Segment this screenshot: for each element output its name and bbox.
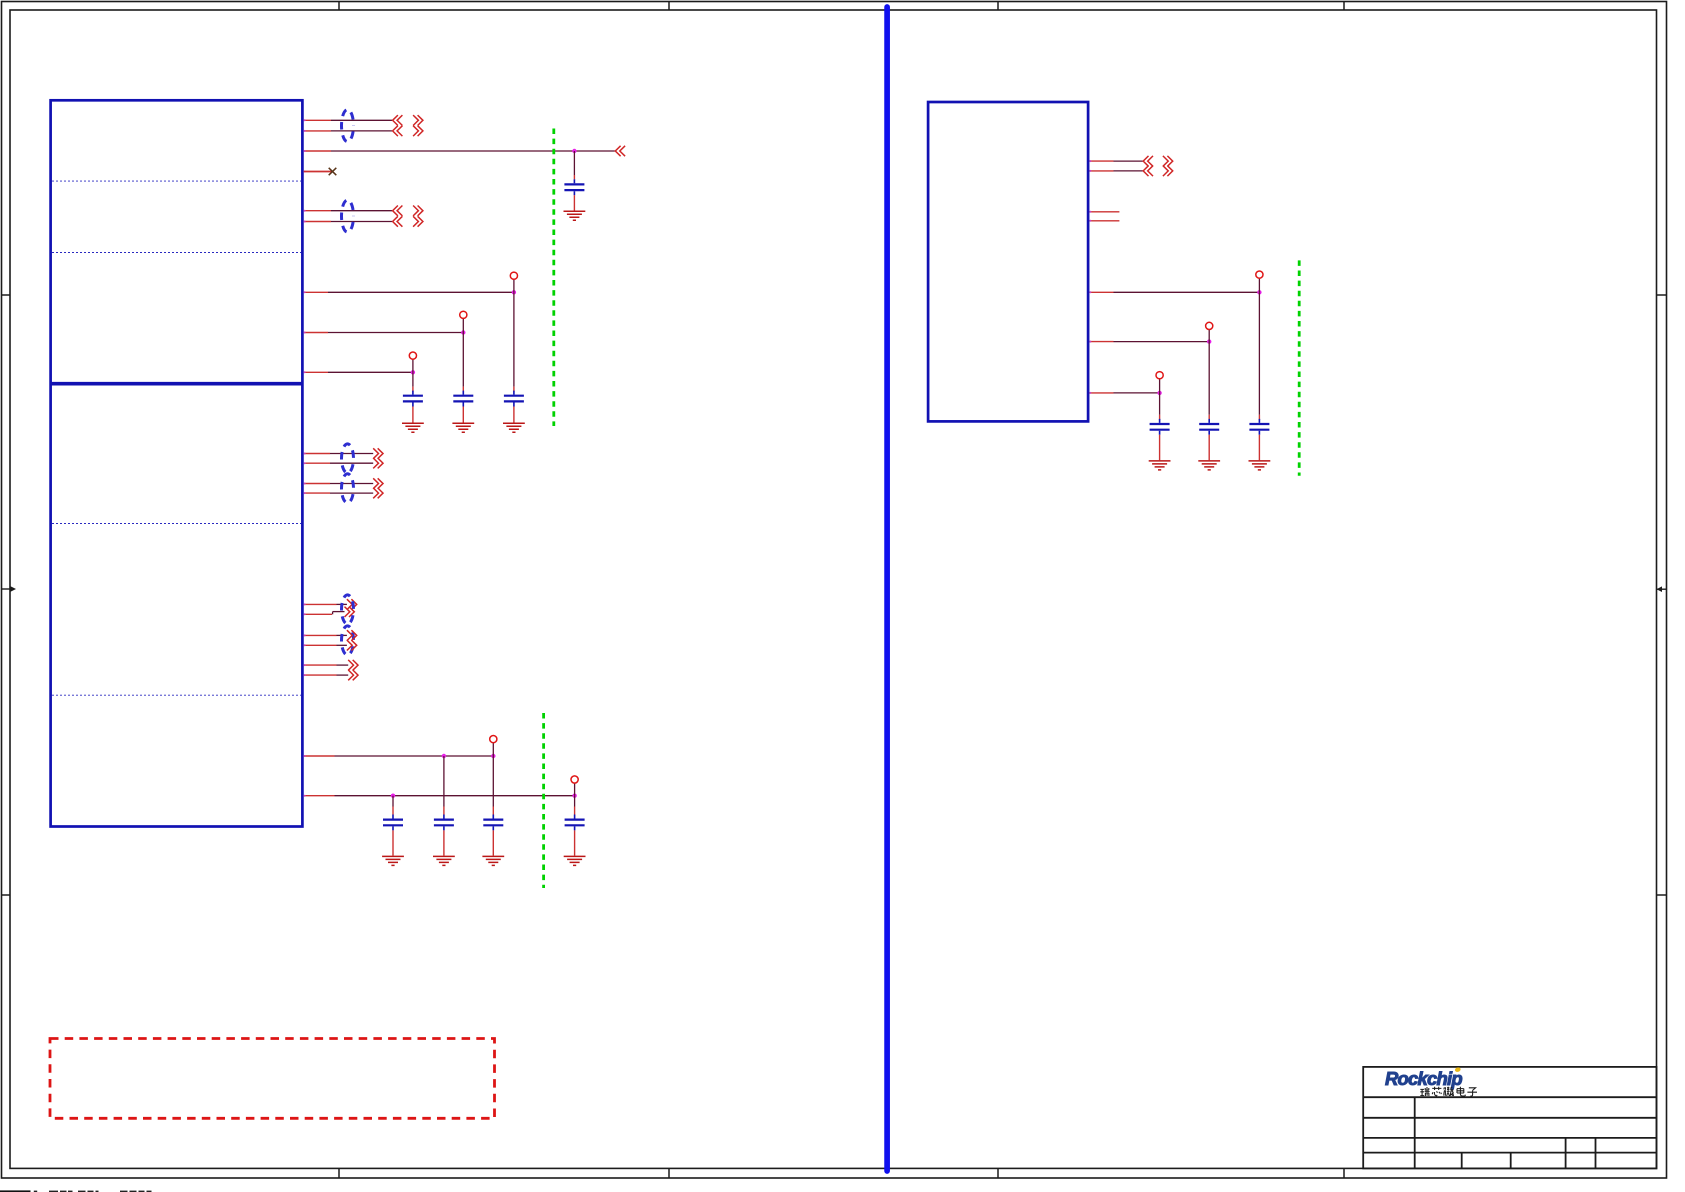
- U1 pin stub y=453.5: [304, 453, 330, 455]
- frame tick bottom: [1343, 1168, 1345, 1178]
- wire net B drop: [462, 333, 464, 387]
- terminal circle net B: [460, 311, 467, 318]
- capacitor C10: [1199, 419, 1219, 435]
- wire net C drop: [412, 372, 414, 386]
- bottom cut text bar: [0, 1190, 31, 1192]
- wire pairC+: [337, 603, 347, 605]
- wire pairE+: [337, 664, 349, 666]
- wire net B riser: [462, 318, 464, 332]
- wire pair2-: [331, 221, 392, 223]
- ground C3: [452, 423, 474, 432]
- wire pair-: [330, 462, 373, 464]
- U2 unconnected stub 2: [1090, 220, 1120, 222]
- capacitor C6: [434, 815, 454, 831]
- wire pair-: [330, 492, 373, 494]
- wire rail2 riser: [574, 783, 576, 796]
- pin lead C5: [392, 807, 394, 815]
- off-page connector >> pair2-: [413, 216, 423, 226]
- wire pairD+: [337, 634, 347, 636]
- wire pair+: [330, 453, 373, 455]
- green highlight line 3: [1298, 260, 1301, 475]
- diff-pair ellipse: [342, 444, 354, 473]
- wire cap C1 lead: [573, 151, 575, 175]
- frame tick left: [2, 894, 11, 896]
- lead C6 to ground: [443, 830, 445, 855]
- IC block U2 outline: [928, 102, 1088, 421]
- U1 section divider (dashed): [52, 523, 301, 525]
- capacitor C7: [483, 815, 503, 831]
- wire pairD-: [337, 644, 347, 646]
- U1 pin stub y=292.3: [304, 291, 328, 293]
- frame tick bottom: [338, 1168, 340, 1178]
- wire pair+: [330, 483, 373, 485]
- ground C11: [1149, 461, 1171, 470]
- ground C8: [564, 856, 586, 865]
- wire net C riser: [412, 359, 414, 372]
- bottom cut text fragment: [147, 1191, 152, 1192]
- pin lead C9: [1258, 415, 1260, 420]
- frame tick right: [1657, 894, 1667, 896]
- junction net A: [512, 290, 516, 294]
- U1 pin stub y=151: [304, 150, 331, 152]
- bottom cut text fragment: [96, 1191, 99, 1192]
- bottom cut text fragment: [130, 1191, 137, 1192]
- U1 pin stub y=130.9: [304, 130, 331, 132]
- off-page connector >> pairC+: [347, 599, 357, 609]
- bottom cut text fragment: [139, 1191, 145, 1192]
- IC block U1 outline: [51, 100, 303, 826]
- off-page connector >> pairE-: [348, 670, 358, 680]
- frame tick top: [338, 2, 340, 11]
- pin lead C6: [443, 807, 445, 815]
- wire net A riser: [513, 279, 515, 292]
- wire Rnet1 riser: [1258, 278, 1260, 292]
- U2 pin stub y=161.1: [1090, 160, 1114, 162]
- off-page connector >> Rpair-: [1163, 166, 1173, 176]
- wire Rpair+: [1114, 160, 1144, 162]
- bottom cut text fragment: [68, 1191, 73, 1192]
- pin lead C7: [492, 807, 494, 815]
- U1 pin stub y=665.1: [304, 664, 337, 666]
- frame tick top: [668, 2, 670, 11]
- off-page connector << long net: [615, 146, 625, 156]
- off-page connector >> pairE+: [348, 660, 358, 670]
- wire C5 drop: [392, 796, 394, 807]
- capacitor C11: [1150, 419, 1170, 435]
- U1 pin stub y=795.7: [304, 795, 335, 797]
- off-page connector << Rpair-: [1143, 166, 1153, 176]
- terminal circle Rnet1: [1256, 271, 1263, 278]
- terminal circle rail1: [490, 736, 497, 743]
- Chinese company name: [1420, 1087, 1477, 1096]
- terminal circle rail2: [571, 776, 578, 783]
- pin lead C1: [573, 175, 575, 179]
- wire Rnet3 riser: [1159, 379, 1161, 393]
- wire net C: [328, 371, 413, 373]
- off-page connector >> Rpair+: [1163, 156, 1173, 166]
- wire C7 drop: [492, 756, 494, 807]
- wire pair1+: [331, 119, 392, 121]
- lead C7 to ground: [492, 830, 494, 855]
- pin lead C2: [513, 387, 515, 392]
- U1 pin stub y=645.3: [304, 644, 337, 646]
- wire Rnet1 drop: [1258, 292, 1260, 415]
- junction rail2 a: [391, 794, 395, 798]
- diff-pair ellipse C: [342, 595, 354, 624]
- frame tick bottom: [668, 1168, 670, 1178]
- junction rail1 b: [491, 754, 495, 758]
- wire Rpair-: [1114, 170, 1144, 172]
- U1 pin stub y=675.1: [304, 674, 337, 676]
- off-page connector >> pairD+: [347, 630, 357, 640]
- ground C9: [1249, 461, 1271, 470]
- U1 section divider (dashed): [52, 180, 301, 182]
- off-page connector >> pairD-: [347, 640, 357, 650]
- capacitor C3: [453, 391, 473, 407]
- lead C10 to ground: [1208, 435, 1210, 460]
- ground C6: [433, 856, 455, 865]
- ground C10: [1198, 461, 1220, 470]
- title block v-line r4a: [1565, 1138, 1567, 1169]
- junction on long net: [572, 149, 576, 153]
- frame tick right: [1657, 294, 1667, 296]
- wire pairC- seg2: [333, 611, 345, 613]
- diff-pair ellipse pair2: [342, 200, 354, 232]
- pin lead C11: [1159, 415, 1161, 420]
- bottom cut text fragment: [78, 1191, 86, 1192]
- no-connect X: [329, 168, 337, 175]
- wire Rnet2: [1114, 341, 1210, 343]
- U1 pin stub y=372.3: [304, 371, 328, 373]
- U1 section divider (dashed): [52, 252, 301, 254]
- frame tick top: [997, 2, 999, 11]
- junction rail2 b: [572, 794, 576, 798]
- wire net A: [328, 291, 514, 293]
- title block h-line 1: [1363, 1096, 1656, 1098]
- junction Rnet3: [1157, 391, 1161, 395]
- pin lead C10: [1208, 415, 1210, 420]
- terminal circle Rnet2: [1206, 322, 1213, 329]
- green highlight line 2: [542, 713, 545, 888]
- U2 pin stub y=292.3: [1090, 291, 1114, 293]
- wire net B: [328, 332, 463, 334]
- U1 pin stub y=756: [304, 755, 335, 757]
- ground C1: [564, 211, 586, 220]
- title block v-line r5a: [1461, 1153, 1463, 1169]
- junction net B: [461, 330, 465, 334]
- bottom cut text fragment: [60, 1191, 67, 1192]
- Rockchip logo gold dot: [1454, 1067, 1461, 1073]
- wire Rnet1: [1114, 291, 1260, 293]
- terminal circle net C: [409, 352, 416, 359]
- terminal circle net A: [510, 272, 517, 279]
- U1 pin stub y=635.4: [304, 634, 337, 636]
- wire long net: [331, 150, 615, 152]
- wire C6 drop: [443, 756, 445, 807]
- wire Rnet2 drop: [1208, 342, 1210, 415]
- wire pair2+: [331, 210, 392, 212]
- off-page connector >> pair-: [373, 458, 383, 468]
- U1 pin stub y=332.5: [304, 332, 328, 334]
- ground C7: [482, 856, 504, 865]
- off-page connector << pair1-: [393, 126, 403, 136]
- off-page connector << pair2-: [393, 216, 403, 226]
- title block outline: [1363, 1067, 1656, 1169]
- lead C8 to ground: [574, 830, 576, 855]
- wire pairC- jog riser: [332, 612, 334, 615]
- wire rail2: [335, 795, 575, 797]
- capacitor C1: [564, 179, 584, 195]
- lead C1 to ground: [573, 195, 575, 210]
- off-page connector >> pair+: [373, 478, 383, 488]
- frame tick left: [2, 294, 11, 296]
- U1 section divider (solid): [50, 382, 303, 386]
- wire C8 drop: [574, 796, 576, 807]
- off-page connector >> pair2+: [413, 206, 423, 216]
- green highlight line 1: [552, 129, 555, 427]
- junction Rnet2: [1207, 339, 1211, 343]
- U1 pin stub y=120.3: [304, 119, 331, 121]
- capacitor C8: [565, 815, 585, 831]
- off-page connector >> pair1-: [413, 126, 423, 136]
- title block h-line 2: [1363, 1117, 1656, 1119]
- U1 pin stub y=463.2: [304, 462, 330, 464]
- off-page connector << Rpair+: [1143, 156, 1153, 166]
- title block h-line 3: [1363, 1137, 1656, 1139]
- frame tick bottom: [997, 1168, 999, 1178]
- pin lead C8: [574, 807, 576, 815]
- U1 pin stub y=221.5: [304, 221, 331, 223]
- U1 pin stub y=493.1: [304, 492, 330, 494]
- off-page connector >> pair1+: [413, 115, 423, 125]
- U2 pin stub y=170.9: [1090, 170, 1114, 172]
- no-connect stub: [304, 171, 332, 173]
- frame tick top: [1343, 2, 1345, 11]
- lead C4 to ground: [412, 407, 414, 423]
- diff-pair ellipse D: [342, 626, 354, 655]
- capacitor C9: [1249, 419, 1269, 435]
- U2 pin stub y=392.9: [1090, 392, 1114, 394]
- title block h-line 4: [1363, 1152, 1656, 1154]
- lead C5 to ground: [392, 830, 394, 855]
- lead C9 to ground: [1258, 435, 1260, 460]
- wire net A drop: [513, 292, 515, 386]
- lead C2 to ground: [513, 407, 515, 423]
- off-page connector << pair2+: [393, 206, 403, 216]
- bottom cut text fragment: [88, 1191, 94, 1192]
- off-page connector >> pair+: [373, 448, 383, 458]
- off-page connector >> pair-: [373, 488, 383, 498]
- wire Rnet3: [1114, 392, 1160, 394]
- bottom cut text fragment: [49, 1191, 58, 1192]
- ground C4: [402, 423, 424, 432]
- svg-text:Rockchip: Rockchip: [1385, 1068, 1462, 1089]
- wire pair1-: [331, 130, 392, 132]
- red dashed box: [50, 1039, 495, 1119]
- page divider line (blue): [884, 7, 890, 1171]
- wire rail1 riser: [492, 743, 494, 756]
- pin lead C3: [462, 387, 464, 392]
- title block v-line left: [1414, 1097, 1416, 1168]
- ground C2: [503, 423, 525, 432]
- frame center arrow right: [1657, 586, 1667, 592]
- capacitor C2: [504, 391, 524, 407]
- diff-pair ellipse: [342, 474, 354, 503]
- terminal circle Rnet3: [1156, 372, 1163, 379]
- diff-pair ellipse pair1: [342, 110, 354, 142]
- lead C11 to ground: [1159, 435, 1161, 460]
- U1 pin stub y=614.3: [304, 613, 332, 615]
- wire pairE-: [337, 674, 349, 676]
- lead C3 to ground: [462, 407, 464, 423]
- off-page connector << pair1+: [393, 115, 403, 125]
- title block v-line r4b: [1595, 1138, 1597, 1169]
- junction Rnet1: [1257, 290, 1261, 294]
- capacitor C4: [403, 391, 423, 407]
- U2 unconnected stub 1: [1090, 211, 1120, 213]
- frame center arrow left: [2, 586, 16, 592]
- off-page connector >> pairC-: [345, 607, 355, 617]
- bottom cut text fragment: [34, 1191, 37, 1192]
- U1 pin stub y=210.7: [304, 210, 331, 212]
- ground C5: [382, 856, 404, 865]
- wire Rnet3 drop: [1159, 393, 1161, 415]
- wire rail1: [335, 755, 494, 757]
- U1 pin stub y=171.5: [304, 171, 332, 173]
- wire Rnet2 riser: [1208, 330, 1210, 342]
- junction rail1 a: [442, 754, 446, 758]
- junction net C: [411, 370, 415, 374]
- U1 section divider (dashed): [52, 694, 301, 696]
- title block v-line r5b: [1510, 1153, 1512, 1169]
- U1 pin stub y=604.4: [304, 603, 337, 605]
- pin lead C4: [412, 387, 414, 392]
- U1 pin stub y=483.5: [304, 483, 330, 485]
- bottom cut text fragment: [120, 1191, 128, 1192]
- U2 pin stub y=341.6: [1090, 341, 1114, 343]
- capacitor C5: [383, 815, 403, 831]
